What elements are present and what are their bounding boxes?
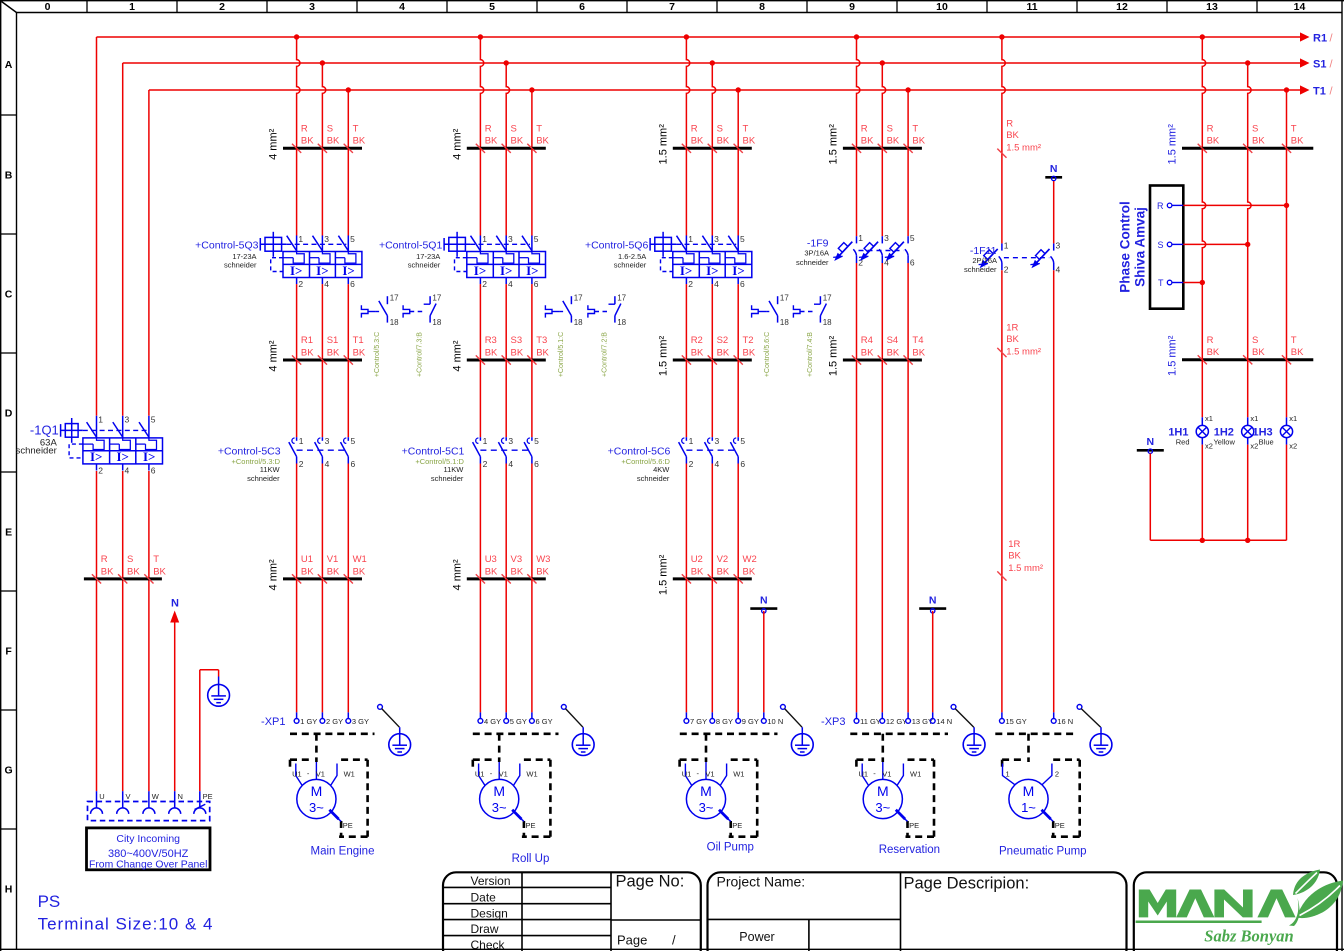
- svg-text:schneider: schneider: [408, 260, 441, 269]
- svg-text:Blue: Blue: [1259, 438, 1274, 447]
- svg-text:S4: S4: [887, 335, 899, 346]
- svg-text:BK: BK: [1207, 136, 1220, 147]
- svg-text:11 GY: 11 GY: [860, 717, 881, 726]
- svg-text:5: 5: [740, 234, 745, 244]
- svg-text:BK: BK: [717, 347, 730, 358]
- svg-text:1: 1: [98, 414, 103, 424]
- svg-text:Check: Check: [471, 938, 506, 951]
- svg-text:1.5 mm²: 1.5 mm²: [1006, 142, 1041, 153]
- svg-text:R1: R1: [301, 335, 313, 346]
- svg-text:2: 2: [1004, 265, 1009, 275]
- svg-text:M: M: [311, 783, 323, 799]
- svg-text:6: 6: [350, 279, 355, 289]
- svg-text:BK: BK: [887, 136, 900, 147]
- svg-text:-1Q1: -1Q1: [30, 423, 59, 438]
- svg-text:V1: V1: [705, 770, 714, 779]
- svg-text:BK: BK: [743, 347, 756, 358]
- svg-text:V1: V1: [882, 770, 891, 779]
- svg-text:1.5 mm²: 1.5 mm²: [1006, 346, 1041, 357]
- svg-text:12 GY: 12 GY: [886, 717, 907, 726]
- svg-text:+Control/7.3:B: +Control/7.3:B: [417, 332, 424, 377]
- svg-text:x1: x1: [1205, 414, 1213, 423]
- svg-text:A: A: [5, 59, 13, 71]
- svg-text:1: 1: [482, 234, 487, 244]
- svg-text:W1: W1: [910, 770, 921, 779]
- svg-text:3: 3: [508, 436, 513, 446]
- svg-text:S: S: [1252, 124, 1258, 135]
- svg-text:I>: I>: [143, 449, 155, 464]
- svg-text:BK: BK: [127, 566, 140, 577]
- svg-text:4: 4: [1056, 265, 1061, 275]
- svg-text:4 mm²: 4 mm²: [268, 128, 280, 160]
- svg-text:W3: W3: [536, 554, 550, 565]
- svg-text:Shiva Amvaj: Shiva Amvaj: [1133, 207, 1148, 287]
- svg-text:0: 0: [45, 1, 51, 13]
- svg-text:R: R: [485, 124, 492, 135]
- svg-text:T4: T4: [912, 335, 923, 346]
- svg-text:3P/16A: 3P/16A: [804, 249, 829, 258]
- svg-text:U2: U2: [691, 554, 703, 565]
- svg-text:x2: x2: [1250, 442, 1258, 451]
- svg-text:I>: I>: [316, 263, 328, 278]
- svg-text:4: 4: [125, 466, 130, 476]
- svg-text:M: M: [1023, 783, 1035, 799]
- svg-text:18: 18: [432, 318, 441, 327]
- svg-text:BK: BK: [301, 347, 314, 358]
- svg-text:18: 18: [617, 318, 626, 327]
- svg-text:BK: BK: [1006, 334, 1019, 345]
- svg-text:3: 3: [309, 1, 315, 13]
- svg-text:2P/16A: 2P/16A: [972, 256, 997, 265]
- svg-text:+Control/7.2:B: +Control/7.2:B: [601, 332, 608, 377]
- svg-text:Page Descripion:: Page Descripion:: [904, 875, 1030, 893]
- svg-text:BK: BK: [301, 566, 314, 577]
- svg-text:4: 4: [324, 279, 329, 289]
- svg-text:W: W: [152, 792, 160, 801]
- svg-text:Main Engine: Main Engine: [311, 846, 375, 858]
- svg-text:Sabz Bonyan: Sabz Bonyan: [1204, 927, 1293, 946]
- svg-text:1: 1: [129, 1, 135, 13]
- svg-text:BK: BK: [353, 566, 366, 577]
- svg-text:6: 6: [534, 459, 539, 469]
- svg-text:BK: BK: [511, 566, 524, 577]
- svg-text:H: H: [5, 884, 13, 896]
- svg-text:W1: W1: [526, 770, 537, 779]
- svg-text:W2: W2: [743, 554, 757, 565]
- svg-text:2: 2: [688, 279, 693, 289]
- svg-text:3: 3: [1056, 240, 1061, 250]
- svg-text:Reservation: Reservation: [879, 844, 940, 856]
- svg-text:5: 5: [534, 234, 539, 244]
- svg-text:+Control-5C3: +Control-5C3: [218, 446, 281, 458]
- svg-text:Date: Date: [471, 891, 497, 905]
- svg-text:x2: x2: [1289, 442, 1297, 451]
- svg-text:17: 17: [432, 294, 441, 303]
- svg-text:BK: BK: [1291, 347, 1304, 358]
- svg-text:R1: R1: [1313, 33, 1327, 45]
- svg-text:T: T: [1291, 335, 1297, 346]
- svg-text:4: 4: [508, 279, 513, 289]
- svg-text:T: T: [912, 124, 918, 135]
- svg-text:3~: 3~: [309, 800, 324, 815]
- svg-text:2: 2: [482, 279, 487, 289]
- svg-text:9 GY: 9 GY: [742, 717, 759, 726]
- svg-text:Project Name:: Project Name:: [717, 874, 806, 890]
- svg-text:17: 17: [574, 294, 583, 303]
- svg-text:I>: I>: [680, 263, 692, 278]
- svg-text:4: 4: [325, 459, 330, 469]
- svg-text:16 N: 16 N: [1057, 717, 1073, 726]
- svg-text:V1: V1: [327, 554, 339, 565]
- svg-text:BK: BK: [153, 566, 166, 577]
- svg-text:T: T: [353, 124, 359, 135]
- svg-text:BK: BK: [485, 136, 498, 147]
- svg-text:3: 3: [125, 414, 130, 424]
- svg-text:BK: BK: [717, 566, 730, 577]
- svg-text:+Control-5Q1: +Control-5Q1: [379, 240, 442, 252]
- svg-text:U1: U1: [301, 554, 313, 565]
- svg-text:schneider: schneider: [964, 265, 997, 274]
- svg-text:1.5 mm²: 1.5 mm²: [1167, 124, 1179, 165]
- svg-text:Version: Version: [471, 874, 511, 888]
- svg-text:W1: W1: [344, 770, 355, 779]
- svg-text:2: 2: [299, 459, 304, 469]
- svg-text:BK: BK: [743, 566, 756, 577]
- svg-text:M: M: [493, 783, 505, 799]
- svg-text:BK: BK: [1207, 347, 1220, 358]
- svg-text:PS: PS: [38, 892, 61, 911]
- svg-text:M: M: [700, 783, 712, 799]
- svg-text:V2: V2: [717, 554, 729, 565]
- svg-text:BK: BK: [1291, 136, 1304, 147]
- svg-text:6: 6: [351, 459, 356, 469]
- svg-text:S: S: [1157, 240, 1163, 250]
- svg-text:/: /: [672, 933, 676, 948]
- svg-text:M: M: [877, 783, 889, 799]
- svg-text:schneider: schneider: [637, 474, 670, 483]
- svg-text:5: 5: [350, 234, 355, 244]
- svg-text:BK: BK: [353, 136, 366, 147]
- svg-text:U1: U1: [475, 770, 485, 779]
- svg-text:BK: BK: [327, 347, 340, 358]
- svg-text:x1: x1: [1289, 414, 1297, 423]
- svg-text:+Control-5C1: +Control-5C1: [402, 446, 465, 458]
- svg-text:+Control-5C6: +Control-5C6: [608, 446, 671, 458]
- svg-text:17: 17: [390, 294, 399, 303]
- svg-text:1.5 mm²: 1.5 mm²: [1008, 563, 1043, 574]
- svg-text:+Control/5.6:C: +Control/5.6:C: [764, 332, 771, 377]
- svg-text:U1: U1: [292, 770, 302, 779]
- svg-text:I>: I>: [706, 263, 718, 278]
- svg-text:E: E: [5, 527, 12, 539]
- svg-text:R4: R4: [861, 335, 873, 346]
- svg-text:7: 7: [669, 1, 675, 13]
- svg-text:Design: Design: [471, 907, 508, 921]
- svg-text:I>: I>: [290, 263, 302, 278]
- svg-text:G: G: [5, 765, 13, 777]
- svg-text:1.5 mm²: 1.5 mm²: [657, 554, 669, 595]
- svg-text:5: 5: [351, 436, 356, 446]
- svg-text:BK: BK: [485, 347, 498, 358]
- svg-text:S1: S1: [1313, 59, 1326, 71]
- svg-text:PE: PE: [526, 821, 536, 830]
- svg-text:BK: BK: [101, 566, 114, 577]
- svg-text:I>: I>: [732, 263, 744, 278]
- svg-text:17: 17: [823, 294, 832, 303]
- svg-text:T: T: [1291, 124, 1297, 135]
- svg-text:4: 4: [399, 1, 405, 13]
- svg-text:D: D: [5, 408, 13, 420]
- svg-text:17: 17: [780, 294, 789, 303]
- svg-text:U1: U1: [859, 770, 869, 779]
- svg-text:BK: BK: [861, 347, 874, 358]
- svg-text:R: R: [1207, 124, 1214, 135]
- svg-text:Red: Red: [1176, 438, 1190, 447]
- svg-text:1: 1: [483, 436, 488, 446]
- svg-text:BK: BK: [691, 347, 704, 358]
- svg-text:T: T: [1158, 278, 1164, 288]
- svg-text:PE: PE: [343, 821, 353, 830]
- svg-text:3 GY: 3 GY: [352, 717, 369, 726]
- svg-text:BK: BK: [887, 347, 900, 358]
- svg-text:14: 14: [1294, 1, 1306, 13]
- svg-text:R: R: [861, 124, 868, 135]
- svg-text:Page No:: Page No:: [616, 873, 685, 891]
- svg-text:I>: I>: [90, 449, 102, 464]
- svg-text:BK: BK: [1006, 130, 1019, 141]
- svg-text:+Control/7.4:B: +Control/7.4:B: [807, 332, 814, 377]
- svg-text:N: N: [929, 594, 937, 606]
- svg-text:5: 5: [910, 233, 915, 243]
- svg-text:BK: BK: [1252, 136, 1265, 147]
- svg-text:6: 6: [151, 466, 156, 476]
- svg-text:Terminal Size:10 & 4: Terminal Size:10 & 4: [38, 915, 214, 934]
- svg-text:I>: I>: [342, 263, 354, 278]
- svg-text:From Change Over Panel: From Change Over Panel: [89, 859, 207, 870]
- svg-text:N: N: [1050, 163, 1058, 175]
- svg-text:S2: S2: [717, 335, 729, 346]
- svg-text:BK: BK: [912, 136, 925, 147]
- svg-text:5 GY: 5 GY: [510, 717, 527, 726]
- svg-text:11KW: 11KW: [444, 465, 465, 474]
- svg-text:14 N: 14 N: [936, 717, 952, 726]
- svg-text:N: N: [178, 792, 183, 801]
- svg-text:schneider: schneider: [431, 474, 464, 483]
- svg-text:R: R: [301, 124, 308, 135]
- svg-text:3~: 3~: [492, 800, 507, 815]
- svg-text:2: 2: [98, 466, 103, 476]
- svg-text:BK: BK: [327, 566, 340, 577]
- svg-text:schneider: schneider: [614, 260, 647, 269]
- svg-text:6: 6: [740, 279, 745, 289]
- svg-text:Page: Page: [617, 933, 647, 948]
- svg-text:schneider: schneider: [16, 446, 57, 457]
- svg-text:F: F: [5, 646, 12, 658]
- svg-text:3: 3: [325, 436, 330, 446]
- svg-text:T1: T1: [353, 335, 364, 346]
- svg-text:1: 1: [689, 436, 694, 446]
- svg-text:1: 1: [688, 234, 693, 244]
- svg-text:4 mm²: 4 mm²: [451, 559, 463, 591]
- svg-text:BK: BK: [301, 136, 314, 147]
- svg-text:BK: BK: [691, 136, 704, 147]
- svg-text:1: 1: [1006, 770, 1010, 779]
- svg-text:5: 5: [534, 436, 539, 446]
- svg-text:18: 18: [780, 318, 789, 327]
- svg-text:U: U: [99, 792, 104, 801]
- svg-text:6: 6: [740, 459, 745, 469]
- svg-text:4 mm²: 4 mm²: [451, 128, 463, 160]
- svg-text:4 mm²: 4 mm²: [268, 559, 280, 591]
- svg-text:BK: BK: [485, 566, 498, 577]
- svg-text:1: 1: [858, 233, 863, 243]
- svg-text:7 GY: 7 GY: [690, 717, 707, 726]
- svg-text:R3: R3: [485, 335, 497, 346]
- svg-text:18: 18: [390, 318, 399, 327]
- svg-text:R: R: [691, 124, 698, 135]
- svg-text:BK: BK: [536, 566, 549, 577]
- svg-text:Pneumatic Pump: Pneumatic Pump: [999, 846, 1087, 858]
- svg-text:5: 5: [489, 1, 495, 13]
- svg-text:schneider: schneider: [247, 474, 280, 483]
- svg-text:BK: BK: [1008, 551, 1021, 562]
- svg-text:x1: x1: [1250, 414, 1258, 423]
- svg-text:S: S: [511, 124, 517, 135]
- svg-text:x2: x2: [1205, 442, 1213, 451]
- svg-text:8: 8: [759, 1, 765, 13]
- svg-text:BK: BK: [861, 136, 874, 147]
- svg-text:BK: BK: [353, 347, 366, 358]
- svg-text:4: 4: [508, 459, 513, 469]
- svg-text:R: R: [1006, 118, 1013, 129]
- svg-text:-XP1: -XP1: [261, 716, 285, 728]
- svg-text:PE: PE: [732, 821, 742, 830]
- svg-text:S3: S3: [511, 335, 523, 346]
- svg-text:BK: BK: [743, 136, 756, 147]
- svg-text:V: V: [126, 792, 131, 801]
- svg-text:5: 5: [151, 414, 156, 424]
- svg-text:+Control/5.3:C: +Control/5.3:C: [374, 332, 381, 377]
- svg-text:I>: I>: [500, 263, 512, 278]
- svg-text:1 GY: 1 GY: [300, 717, 317, 726]
- svg-text:T1: T1: [1313, 86, 1326, 98]
- svg-text:I>: I>: [474, 263, 486, 278]
- svg-text:2: 2: [298, 279, 303, 289]
- svg-text:-XP3: -XP3: [821, 716, 845, 728]
- svg-text:S: S: [127, 554, 133, 565]
- svg-text:T: T: [153, 554, 159, 565]
- svg-text:V1: V1: [499, 770, 508, 779]
- svg-text:C: C: [5, 289, 13, 301]
- svg-text:6: 6: [910, 258, 915, 268]
- svg-text:5: 5: [740, 436, 745, 446]
- svg-text:1R: 1R: [1006, 322, 1018, 333]
- svg-text:2 GY: 2 GY: [326, 717, 343, 726]
- svg-text:S1: S1: [327, 335, 339, 346]
- svg-text:4 mm²: 4 mm²: [268, 340, 280, 372]
- svg-text:U1: U1: [682, 770, 692, 779]
- svg-text:Oil Pump: Oil Pump: [707, 842, 754, 854]
- svg-text:1.5 mm²: 1.5 mm²: [1167, 335, 1179, 376]
- svg-text:1: 1: [298, 234, 303, 244]
- svg-text:R: R: [1207, 335, 1214, 346]
- svg-text:3: 3: [508, 234, 513, 244]
- svg-text:B: B: [5, 170, 13, 182]
- svg-text:BK: BK: [1252, 347, 1265, 358]
- svg-text:Yellow: Yellow: [1213, 438, 1235, 447]
- svg-text:8 GY: 8 GY: [716, 717, 733, 726]
- svg-text:W1: W1: [733, 770, 744, 779]
- svg-text:1R: 1R: [1008, 539, 1020, 550]
- svg-text:T: T: [536, 124, 542, 135]
- svg-text:BK: BK: [327, 136, 340, 147]
- svg-text:18: 18: [574, 318, 583, 327]
- svg-text:2: 2: [219, 1, 225, 13]
- svg-text:3~: 3~: [699, 800, 714, 815]
- svg-text:+Control/5.1:C: +Control/5.1:C: [558, 332, 565, 377]
- svg-text:3: 3: [884, 233, 889, 243]
- svg-text:R2: R2: [691, 335, 703, 346]
- svg-text:10 N: 10 N: [767, 717, 783, 726]
- svg-text:T3: T3: [536, 335, 547, 346]
- svg-text:PE: PE: [1055, 821, 1065, 830]
- svg-text:1: 1: [299, 436, 304, 446]
- svg-text:1.5 mm²: 1.5 mm²: [827, 335, 839, 376]
- svg-text:1.5 mm²: 1.5 mm²: [827, 124, 839, 165]
- svg-text:R: R: [101, 554, 108, 565]
- svg-text:11KW: 11KW: [260, 465, 281, 474]
- svg-text:PE: PE: [909, 821, 919, 830]
- svg-text:6: 6: [534, 279, 539, 289]
- svg-text:1: 1: [1004, 240, 1009, 250]
- svg-text:T2: T2: [743, 335, 754, 346]
- svg-text:4KW: 4KW: [653, 465, 670, 474]
- svg-text:4: 4: [714, 279, 719, 289]
- svg-text:4 mm²: 4 mm²: [451, 340, 463, 372]
- svg-text:I>: I>: [526, 263, 538, 278]
- svg-text:17: 17: [617, 294, 626, 303]
- svg-text:schneider: schneider: [224, 260, 257, 269]
- svg-text:2: 2: [483, 459, 488, 469]
- svg-text:BK: BK: [511, 136, 524, 147]
- svg-text:380~400V/50HZ: 380~400V/50HZ: [108, 848, 189, 860]
- svg-text:S: S: [1252, 335, 1258, 346]
- svg-text:T: T: [743, 124, 749, 135]
- svg-text:schneider: schneider: [796, 258, 829, 267]
- svg-text:N: N: [1147, 436, 1155, 448]
- svg-text:V1: V1: [316, 770, 325, 779]
- svg-text:9: 9: [849, 1, 855, 13]
- svg-text:2: 2: [689, 459, 694, 469]
- svg-text:15 GY: 15 GY: [1006, 717, 1027, 726]
- svg-text:Power: Power: [739, 930, 774, 944]
- svg-text:3~: 3~: [875, 800, 890, 815]
- svg-text:18: 18: [823, 318, 832, 327]
- svg-text:4 GY: 4 GY: [484, 717, 501, 726]
- svg-text:U3: U3: [485, 554, 497, 565]
- svg-text:N: N: [171, 598, 179, 610]
- svg-text:4: 4: [715, 459, 720, 469]
- svg-text:Roll Up: Roll Up: [512, 853, 550, 865]
- svg-text:13: 13: [1206, 1, 1218, 13]
- svg-text:1~: 1~: [1021, 800, 1036, 815]
- svg-text:N: N: [760, 594, 768, 606]
- svg-text:V3: V3: [511, 554, 523, 565]
- svg-text:6: 6: [579, 1, 585, 13]
- svg-text:1.5 mm²: 1.5 mm²: [657, 124, 669, 165]
- svg-text:Phase Control: Phase Control: [1118, 201, 1133, 293]
- svg-text:S: S: [327, 124, 333, 135]
